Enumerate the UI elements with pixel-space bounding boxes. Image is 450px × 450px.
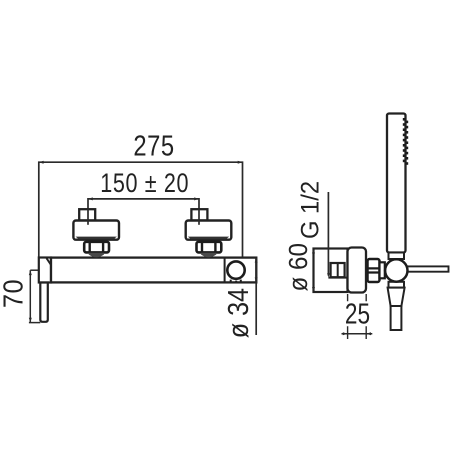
right valve nut face lines (202, 242, 215, 253)
union G1/2 stub (331, 263, 345, 277)
main bar body (51, 258, 256, 283)
union stub divider (337, 263, 339, 277)
dimension 70 tick top (29, 270, 32, 275)
right valve body shade band (188, 237, 229, 240)
dimension 25 tick left (343, 332, 348, 335)
union inner step line (328, 277, 347, 279)
hose cone (388, 288, 405, 306)
holder nut (368, 259, 380, 282)
dimension ø34 line (255, 258, 257, 335)
svg-text:ø 60: ø 60 (284, 243, 313, 291)
right valve knob (191, 209, 207, 220)
holder nut face lines (368, 268, 380, 272)
dimension 25 extension lines (348, 294, 367, 339)
dimension 275 dim line (39, 162, 243, 257)
dimension 25 dim line (342, 333, 373, 335)
svg-text:25: 25 (345, 297, 370, 330)
right valve stem axis line (198, 209, 200, 225)
wand spray texture (403, 118, 408, 165)
ø60 tick bottom (312, 287, 315, 292)
bar joint divider (224, 258, 226, 283)
dimension ø34 tick bottom (255, 278, 258, 283)
svg-text:70: 70 (0, 279, 29, 308)
svg-text:G 1/2: G 1/2 (297, 181, 325, 239)
svg-text:275: 275 (133, 129, 174, 162)
G1/2 leader line (327, 192, 329, 276)
holder arm (405, 266, 449, 271)
dimension 150±20 tick right (194, 197, 199, 200)
dimension 275 tick left (39, 161, 44, 164)
swivel ball (385, 259, 407, 281)
svg-text:150 ± 20: 150 ± 20 (100, 169, 189, 199)
left valve body (73, 221, 119, 240)
left valve knob (79, 209, 95, 220)
left end cap (39, 258, 51, 283)
left valve body shade band (76, 237, 117, 240)
wall flange (348, 248, 367, 293)
ø60 tick top (312, 249, 315, 254)
left cone chamfer (47, 258, 55, 282)
wand lower collar (389, 253, 405, 260)
left valve nut (84, 242, 109, 253)
left valve stem axis line (87, 209, 89, 225)
outlet aerator ticks (231, 280, 241, 282)
dimension 70 tick bottom (29, 318, 32, 323)
right valve nut (197, 242, 222, 253)
outlet circle (227, 261, 244, 278)
dimension 150±20 tick left (88, 197, 93, 200)
holder collar (380, 262, 385, 278)
dimension 25 tick right (366, 332, 371, 335)
svg-text:ø 34: ø 34 (221, 288, 254, 338)
dimension 150±20 dim line (88, 199, 199, 225)
left valve shank (89, 253, 104, 257)
right valve body (186, 221, 232, 240)
handle lever (40, 283, 48, 322)
dimension 275 tick right (238, 161, 243, 164)
dimension 70 dim line (29, 270, 40, 322)
hose nipple (391, 306, 402, 330)
handshower wand (387, 114, 406, 253)
dimension ø34 tick top (255, 258, 258, 263)
side view union box (314, 249, 348, 293)
left valve nut face lines (90, 242, 103, 253)
lower collar below ball (389, 282, 405, 288)
G1/2 leader arrow (327, 273, 330, 277)
right valve shank (201, 253, 216, 257)
